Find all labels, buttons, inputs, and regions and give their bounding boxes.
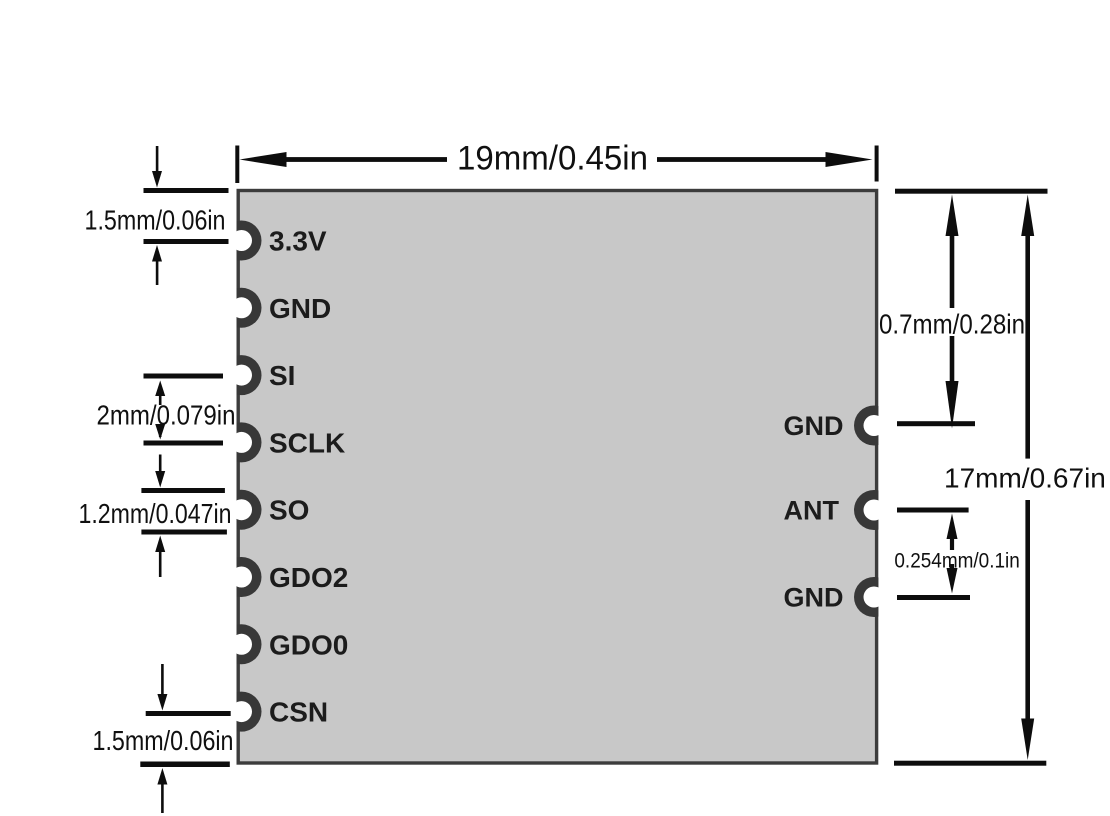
dimension 1.5mm top bars [144, 188, 229, 244]
pin GDO2 [222, 557, 262, 597]
svg-text:GND: GND [784, 411, 844, 441]
svg-text:0.7mm/0.28in: 0.7mm/0.28in [879, 309, 1025, 340]
right GND2 bar [897, 595, 970, 600]
pin ANT [854, 490, 894, 530]
pin GND right bottom [854, 577, 894, 617]
svg-text:ANT: ANT [784, 496, 840, 526]
pin SCLK [222, 422, 262, 462]
svg-text:GDO0: GDO0 [269, 629, 348, 660]
pin SI [222, 355, 262, 395]
svg-text:SO: SO [269, 495, 309, 526]
dimension 19mm ticks [235, 146, 878, 184]
svg-text:GDO2: GDO2 [269, 562, 348, 593]
dimension 19mm right arrow [657, 152, 873, 167]
svg-text:1.5mm/0.06in: 1.5mm/0.06in [93, 725, 234, 756]
right GND bar [897, 421, 975, 426]
svg-text:3.3V: 3.3V [269, 226, 327, 257]
svg-text:CSN: CSN [269, 697, 328, 728]
pin CSN [222, 692, 262, 732]
svg-text:SCLK: SCLK [269, 427, 345, 458]
pin SO [222, 490, 262, 530]
dimension 1.2mm arrows [155, 455, 165, 578]
dimension 2mm bars [144, 374, 224, 446]
dimension 0.254mm down arrow [947, 564, 958, 594]
dimension 1.2mm bars [141, 488, 227, 535]
dimension 0.7mm up arrow [946, 195, 959, 309]
svg-text:GND: GND [269, 293, 331, 324]
pin GND right top [854, 406, 894, 446]
pin GDO0 [222, 624, 262, 664]
svg-text:SI: SI [269, 360, 295, 391]
dimension 17mm line bottom [1021, 500, 1034, 760]
right top reference bar [895, 189, 1048, 194]
dimension 17mm line top [1021, 195, 1034, 459]
module body [238, 191, 876, 764]
svg-text:0.254mm/0.1in: 0.254mm/0.1in [894, 550, 1019, 573]
dimension 1.5mm top arrows [152, 146, 162, 285]
right bottom bar [894, 761, 1046, 766]
dimension 0.254mm up arrow [947, 514, 958, 551]
dimension 19mm left arrow [240, 152, 448, 167]
dimension 1.5mm bottom arrows [157, 664, 167, 813]
dimension 2mm arrows [155, 381, 165, 440]
pin 3.3V [222, 221, 262, 261]
dimension 0.7mm down arrow [946, 336, 959, 429]
pin GND left [222, 288, 262, 328]
dimension 1.5mm bottom bars [140, 711, 230, 767]
svg-text:2mm/0.079in: 2mm/0.079in [97, 400, 236, 431]
svg-text:1.2mm/0.047in: 1.2mm/0.047in [79, 498, 232, 529]
right ANT bar [897, 508, 969, 513]
svg-text:19mm/0.45in: 19mm/0.45in [457, 140, 648, 178]
svg-text:1.5mm/0.06in: 1.5mm/0.06in [85, 205, 226, 236]
svg-text:GND: GND [784, 583, 844, 613]
svg-text:17mm/0.67in: 17mm/0.67in [944, 463, 1106, 494]
